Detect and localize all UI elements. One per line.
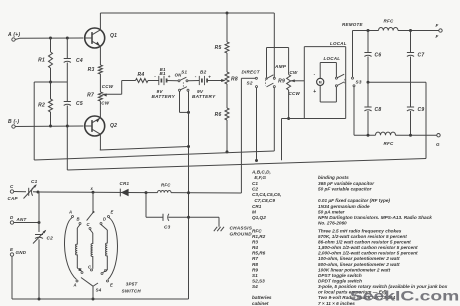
svg-text:R9: R9 <box>252 267 258 272</box>
svg-text:C5: C5 <box>76 101 83 107</box>
svg-text:C2: C2 <box>252 187 258 192</box>
wire V1 tuned circuit to S2 <box>241 78 255 193</box>
terminal D binding post <box>10 215 27 224</box>
svg-text:C1: C1 <box>31 179 38 184</box>
capacitor C9 <box>407 82 425 135</box>
svg-text:C3,C4,C5,C6,: C3,C4,C5,C6, <box>252 192 281 197</box>
resistor R6 <box>215 84 229 152</box>
wire tuned rail <box>38 192 241 193</box>
transistor Q2 <box>85 116 117 136</box>
node C3 chassis junction <box>187 216 190 219</box>
svg-text:R1,R2: R1,R2 <box>252 234 266 239</box>
node C8 bottom junction <box>367 134 370 137</box>
svg-text:50 pF variable capacitor: 50 pF variable capacitor <box>318 187 373 192</box>
wire local outer box <box>304 47 345 119</box>
label S3 <box>356 80 362 85</box>
svg-text:BATTERY: BATTERY <box>192 94 216 99</box>
svg-text:-: - <box>314 71 316 76</box>
svg-text:1,800-ohm 1/2-watt carbon resi: 1,800-ohm 1/2-watt carbon resistor 5 per… <box>318 245 418 250</box>
resistor R3 <box>88 65 103 74</box>
wire S1 lower pole down <box>180 91 191 114</box>
wire D to coil L3 <box>101 225 107 231</box>
contact S4 A bottom <box>73 280 79 288</box>
terminal A binding post <box>7 32 20 41</box>
label CCW R7 <box>102 84 114 89</box>
terminal E binding post <box>10 247 27 256</box>
svg-text:B: B <box>79 267 82 272</box>
label AMP <box>274 64 287 69</box>
wire Q1 collector to top rail <box>99 13 101 28</box>
switch S1 lower pole <box>179 87 190 92</box>
capacitor C1 variable <box>24 179 39 199</box>
contact S4 C top <box>87 222 92 230</box>
svg-text:+: + <box>313 89 316 95</box>
svg-text:G: G <box>436 142 440 147</box>
wire C to coil L2 <box>90 230 93 234</box>
svg-text:100K linear potentiometer 2 wa: 100K linear potentiometer 2 watt <box>318 267 391 272</box>
svg-text:ANT: ANT <box>16 217 28 222</box>
label DP5T switch <box>122 281 142 293</box>
label S2 <box>247 81 253 86</box>
svg-text:M: M <box>252 210 256 215</box>
svg-text:R3: R3 <box>88 67 95 73</box>
contact S4 C bottom <box>88 265 93 272</box>
svg-text:DIRECT: DIRECT <box>242 70 261 75</box>
svg-text:AMP: AMP <box>274 64 287 69</box>
svg-text:CR1: CR1 <box>252 204 262 209</box>
node S4 wiper top junction <box>90 186 95 194</box>
svg-text:B1: B1 <box>160 71 166 76</box>
contact S4 B bottom <box>79 267 84 274</box>
switch S3 upper pole <box>335 74 353 79</box>
svg-text:B: B <box>77 217 80 222</box>
capacitor C7 <box>407 31 425 83</box>
wire B input <box>15 125 83 128</box>
capacitor C2 variable <box>33 230 53 244</box>
svg-text:SeekIC.com: SeekIC.com <box>350 288 459 303</box>
wiper arrow R7 <box>102 94 107 97</box>
node R9 bottom junction <box>287 117 290 120</box>
battery B2 <box>192 70 216 99</box>
terminal G binding post <box>436 134 440 148</box>
wire L2 to C bottom <box>92 265 94 269</box>
wire C terminal to C1 <box>14 191 26 193</box>
svg-text:S4: S4 <box>96 288 102 293</box>
wire R3 to R7 <box>99 74 101 92</box>
svg-text:R1: R1 <box>38 58 45 64</box>
wire S4 arc left <box>64 218 76 280</box>
node P2 bottom junction <box>38 298 41 301</box>
svg-text:C7: C7 <box>418 53 425 59</box>
node S2 throw on line C <box>255 159 258 162</box>
svg-text:86-ohm 1/2 watt carbon resisto: 86-ohm 1/2 watt carbon resistor 5 percen… <box>318 240 411 245</box>
svg-text:A: A <box>73 283 77 288</box>
svg-text:RFC: RFC <box>384 19 394 24</box>
svg-text:R4: R4 <box>138 72 145 78</box>
switch S2 lower pole <box>256 83 276 88</box>
wire S2 lower right throw down <box>273 88 275 151</box>
wire S3 upper to REMOTE <box>352 31 354 78</box>
wiper arrow R9 wire <box>290 79 304 82</box>
wire chassis branch <box>189 217 220 227</box>
wire R4 to B1 <box>148 80 159 82</box>
svg-text:CAP: CAP <box>8 196 19 201</box>
svg-text:2,000-ohm 1/2-watt carbon resi: 2,000-ohm 1/2-watt carbon resistor 5 per… <box>317 251 418 256</box>
svg-text:C4: C4 <box>76 58 83 64</box>
contact S4 E top <box>108 210 114 218</box>
svg-text:A: A <box>68 210 72 215</box>
node R5 top junction <box>226 12 229 15</box>
svg-text:ON: ON <box>175 73 183 78</box>
svg-text:S2: S2 <box>247 81 253 86</box>
label LOCAL inner <box>324 56 341 61</box>
svg-text:F: F <box>436 23 439 28</box>
svg-text:NPN Darlington transistors. MP: NPN Darlington transistors. MPS-A13. Rad… <box>318 215 432 220</box>
wire REMOTE rail <box>353 30 439 32</box>
svg-text:C1: C1 <box>252 181 258 186</box>
svg-text:CR1: CR1 <box>120 181 130 186</box>
switch S2 upper pole <box>255 75 275 80</box>
svg-text:GND: GND <box>16 250 27 255</box>
wire mid to ground return <box>425 82 427 158</box>
node C6 top junction <box>367 29 370 32</box>
wire S1 return column <box>188 91 190 299</box>
svg-text:+: + <box>208 74 211 79</box>
wiper arrow R8 <box>221 79 226 82</box>
wire return line C <box>67 159 426 171</box>
svg-text:570K, 1/2-watt carbon resistor: 570K, 1/2-watt carbon resistor 5 percent <box>318 234 407 239</box>
svg-text:C8: C8 <box>375 107 382 113</box>
capacitor C5 <box>64 82 83 170</box>
wire S2 box top to R9 <box>267 48 289 78</box>
svg-text:DPDT toggle switch: DPDT toggle switch <box>318 279 362 284</box>
node R1 bottom junction <box>49 81 52 84</box>
diode CR1 <box>120 189 128 197</box>
node S4 bottom junction <box>92 298 95 301</box>
svg-text:RFC: RFC <box>252 228 262 233</box>
svg-text:R5,R6: R5,R6 <box>252 251 266 256</box>
svg-text:500-ohm, linear potentiometer: 500-ohm, linear potentiometer 2 watt <box>318 262 400 267</box>
svg-text:No. 276-2060: No. 276-2060 <box>318 221 347 226</box>
resistor R1 <box>38 38 52 82</box>
svg-text:RFC: RFC <box>384 141 394 146</box>
resistor R4 <box>136 72 149 83</box>
inductor RFC bottom <box>376 132 396 146</box>
wire mid tap rail <box>368 81 426 83</box>
svg-text:R7: R7 <box>252 256 258 261</box>
svg-text:100-ohm, linear potentiometer: 100-ohm, linear potentiometer 2 watt <box>318 256 400 261</box>
contact S4 A top <box>68 210 74 218</box>
wire bottom rail <box>12 298 189 300</box>
svg-text:CW: CW <box>101 101 109 106</box>
wire left column P1 <box>33 82 35 160</box>
wire S1 to B2 <box>188 80 199 82</box>
node C6 mid junction <box>367 81 370 84</box>
svg-text:REMOTE: REMOTE <box>342 22 363 27</box>
wire top rail <box>100 12 274 14</box>
svg-text:C: C <box>87 222 91 227</box>
svg-text:CCW: CCW <box>102 84 114 89</box>
svg-text:R3: R3 <box>252 240 258 245</box>
svg-text:C2: C2 <box>47 236 54 241</box>
svg-text:S1: S1 <box>181 69 187 74</box>
label DIRECT <box>242 70 261 75</box>
label CR1 <box>120 181 130 186</box>
svg-text:CCW: CCW <box>289 91 301 96</box>
svg-text:x: x <box>90 186 94 191</box>
potentiometer R8 <box>225 72 238 84</box>
svg-text:S1: S1 <box>252 273 258 278</box>
svg-text:R7: R7 <box>87 92 94 98</box>
capacitor C4 <box>64 38 83 82</box>
node ANT junction <box>38 221 41 224</box>
switch S1 upper pole <box>175 69 188 81</box>
svg-text:D: D <box>103 217 106 222</box>
svg-text:DPST toggle switch: DPST toggle switch <box>318 273 362 278</box>
node line A end junction <box>187 145 190 148</box>
node R1 top junction <box>49 37 52 40</box>
node R2 bottom junction <box>49 125 52 128</box>
svg-text:Q2: Q2 <box>110 123 117 129</box>
svg-text:E: E <box>110 283 113 288</box>
svg-text:cabinet: cabinet <box>252 301 269 306</box>
wire S4 bottom stem <box>92 286 94 299</box>
wire L3 to D bottom <box>103 270 108 273</box>
node C9 bottom junction <box>409 134 412 137</box>
wire Q1 emitter lead <box>99 48 101 65</box>
capacitor C6 <box>364 31 381 83</box>
svg-text:R8: R8 <box>231 77 238 83</box>
svg-text:E: E <box>111 210 114 215</box>
svg-text:A,B,C,D,: A,B,C,D, <box>251 169 271 174</box>
wire emitter return line A <box>100 147 189 151</box>
wire D to column <box>14 222 39 224</box>
svg-text:R9: R9 <box>278 79 285 85</box>
node C1 junction <box>37 191 40 194</box>
svg-text:RFC: RFC <box>161 183 171 188</box>
svg-text:B2: B2 <box>200 70 207 75</box>
wire B to coil L1 <box>77 225 80 229</box>
svg-text:0.01 µF fixed capacitor (RF ty: 0.01 µF fixed capacitor (RF type) <box>318 198 390 203</box>
contact S4 D top <box>100 217 106 225</box>
label S4 <box>96 288 102 293</box>
inductor RFC top <box>379 19 399 31</box>
svg-text:-: - <box>195 74 197 79</box>
svg-text:Three 2.5 mH radio frequency c: Three 2.5 mH radio frequency chokes <box>318 228 402 233</box>
inductor RFC tuned <box>158 183 172 193</box>
battery B1 <box>152 67 176 99</box>
wire amp vertical from top rail <box>273 13 275 77</box>
chassis ground <box>214 227 224 231</box>
svg-text:Q1,Q2: Q1,Q2 <box>252 215 266 220</box>
potentiometer R9 <box>278 75 300 97</box>
svg-text:R8: R8 <box>252 262 258 267</box>
inductor L3 <box>106 230 108 270</box>
switch S4 top wiper <box>87 211 95 221</box>
wire R9 bottom <box>288 90 290 119</box>
svg-text:CHASSIS: CHASSIS <box>230 226 253 231</box>
wire S4 wiper stem <box>92 192 94 212</box>
terminal C binding post <box>8 184 19 201</box>
svg-text:GROUND: GROUND <box>230 232 253 237</box>
wire G rail <box>354 134 437 136</box>
label chassis ground <box>230 226 253 237</box>
svg-text:F: F <box>436 34 439 39</box>
wire R7 wiper to R4 <box>102 81 135 95</box>
svg-text:SWITCH: SWITCH <box>122 288 142 293</box>
wire S2 lower left throw down <box>256 88 258 161</box>
svg-text:BATTERY: BATTERY <box>152 94 176 99</box>
svg-text:C6: C6 <box>375 53 382 59</box>
inductor L2 <box>91 233 93 265</box>
node S1 column on tuned rail <box>187 191 190 194</box>
parts list <box>251 169 448 305</box>
wire Q2 emitter to line A <box>99 136 101 150</box>
wire column P2 lower <box>38 239 40 299</box>
svg-text:R6: R6 <box>215 112 222 118</box>
wire column P2 upper <box>38 192 40 232</box>
terminal F binding post <box>436 23 443 39</box>
svg-text:R5: R5 <box>215 45 222 51</box>
svg-text:CW: CW <box>290 70 298 75</box>
watermark <box>350 288 459 303</box>
wire S3 lower to G rail <box>353 87 355 135</box>
wire L1 to B bottom <box>77 268 81 271</box>
svg-text:D: D <box>10 215 14 220</box>
wire S4 arc right <box>108 218 117 280</box>
wire meter box <box>320 63 336 103</box>
svg-text:LOCAL: LOCAL <box>324 56 341 61</box>
terminal B binding post <box>8 119 19 128</box>
svg-text:M: M <box>319 81 322 85</box>
svg-text:LOCAL: LOCAL <box>330 41 347 46</box>
svg-text:Q1: Q1 <box>110 33 117 39</box>
switch S3 link <box>344 79 346 85</box>
svg-text:1N34 germanium diode: 1N34 germanium diode <box>318 204 370 209</box>
node C7 top junction <box>409 29 412 32</box>
wire A input <box>15 38 83 40</box>
label LOCAL outer <box>330 41 347 46</box>
inductor L1 <box>76 228 78 268</box>
switch S2 link <box>265 80 267 86</box>
switch S1 link <box>182 82 184 88</box>
svg-text:R4: R4 <box>252 245 258 250</box>
svg-text:C: C <box>10 184 14 189</box>
svg-text:E,F,G: E,F,G <box>252 175 266 180</box>
svg-text:365 pF variable capacitor: 365 pF variable capacitor <box>318 181 375 186</box>
node C5 B junction <box>66 125 69 128</box>
meter M <box>313 71 324 94</box>
switch S3 lower pole <box>335 82 355 87</box>
svg-text:binding posts: binding posts <box>318 175 349 180</box>
svg-text:S2,S3: S2,S3 <box>252 279 265 284</box>
svg-text:+: + <box>168 74 171 79</box>
wire E to bottom rail <box>11 256 13 299</box>
svg-text:C9: C9 <box>418 107 425 113</box>
label CW R9 <box>290 70 298 75</box>
capacitor C8 <box>364 82 381 135</box>
svg-text:A (+): A (+) <box>7 32 20 38</box>
wire meter bottom rail <box>282 119 346 161</box>
resistor R2 <box>38 82 52 126</box>
wire B2 to R8 wiper <box>207 80 223 82</box>
wire C3 branch <box>146 193 163 218</box>
contact S4 B top <box>77 217 82 225</box>
transistor Q1 <box>85 28 117 48</box>
svg-text:D: D <box>104 268 107 273</box>
label REMOTE <box>342 22 363 27</box>
contact S4 D bottom <box>101 268 107 275</box>
svg-text:B (-): B (-) <box>8 119 19 125</box>
svg-text:S3: S3 <box>356 80 362 85</box>
svg-text:-: - <box>154 74 156 79</box>
svg-text:batteries: batteries <box>252 295 272 300</box>
wire return line B <box>34 151 274 160</box>
svg-text:E: E <box>10 247 14 252</box>
svg-text:3P5T: 3P5T <box>126 281 139 286</box>
svg-text:C3: C3 <box>164 225 171 230</box>
node C3 branch junction <box>145 191 148 194</box>
svg-text:S4: S4 <box>252 284 258 289</box>
svg-text:R2: R2 <box>38 103 45 109</box>
svg-text:50 µA meter: 50 µA meter <box>318 210 346 215</box>
capacitor C3 <box>163 214 189 230</box>
resistor R5 <box>215 13 229 72</box>
wire lower bias rail <box>34 81 67 83</box>
node R6 bottom junction <box>226 150 229 153</box>
contact S4 E bottom <box>107 280 114 288</box>
node C4 top junction <box>66 37 69 40</box>
potentiometer R7 <box>87 92 110 106</box>
wire R7 to Q2 collector <box>99 101 101 116</box>
wire B1 to S1 <box>167 80 178 82</box>
switch S4 bottom wiper <box>81 278 98 287</box>
svg-text:C7,C8,C9: C7,C8,C9 <box>252 198 275 203</box>
